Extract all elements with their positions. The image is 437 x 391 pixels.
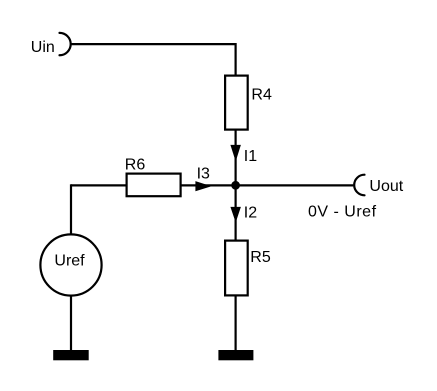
svg-text:Uout: Uout	[369, 178, 403, 195]
terminal Uin	[60, 33, 71, 55]
wire R5 to ground	[235, 295, 237, 351]
svg-text:0V - Uref: 0V - Uref	[308, 204, 377, 221]
svg-text:I2: I2	[244, 205, 257, 222]
svg-text:I1: I1	[244, 148, 257, 165]
wire node down to R5	[235, 185, 237, 241]
wire node to Uout	[236, 184, 354, 186]
wire R6 to node	[181, 184, 236, 186]
svg-text:Uin: Uin	[31, 39, 55, 56]
wire corner down to R4	[235, 43, 237, 76]
current arrow I3	[195, 181, 211, 191]
wire left of R6	[71, 184, 127, 186]
resistor R6	[127, 174, 181, 197]
wire Uin to corner	[71, 43, 235, 45]
ground (right)	[218, 350, 253, 360]
source Uref	[40, 234, 101, 295]
wire R4 to node	[235, 130, 237, 186]
current arrow I2	[230, 207, 241, 223]
terminal Uout	[354, 175, 364, 196]
resistor R5	[225, 241, 248, 296]
node junction	[231, 181, 240, 190]
svg-text:R5: R5	[250, 249, 271, 266]
ground (left)	[53, 350, 88, 360]
current arrow I1	[230, 145, 241, 162]
svg-text:R4: R4	[251, 86, 272, 103]
resistor R4	[225, 76, 248, 130]
svg-text:Uref: Uref	[54, 252, 85, 269]
svg-text:I3: I3	[197, 165, 210, 182]
wire node level down to Uref	[70, 184, 72, 235]
svg-text:R6: R6	[125, 156, 146, 173]
wire Uref to ground	[70, 296, 72, 351]
